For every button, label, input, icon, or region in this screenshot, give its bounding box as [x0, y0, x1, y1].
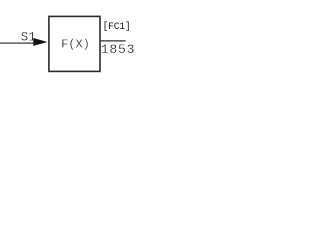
- function block F(X): [49, 16, 100, 71]
- wire: [0, 42, 35, 44]
- svg-text:1853: 1853: [101, 42, 136, 57]
- reference line: [100, 40, 126, 42]
- svg-text:F(X): F(X): [61, 37, 89, 51]
- svg-text:[FC1]: [FC1]: [103, 21, 131, 32]
- arrowhead: [33, 38, 47, 46]
